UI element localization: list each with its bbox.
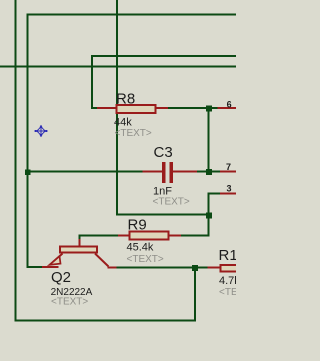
wire C3 right to junction xyxy=(197,171,206,173)
svg-text:3: 3 xyxy=(227,184,232,194)
capacitor C3 xyxy=(143,144,199,208)
origin marker (blue crosshair) xyxy=(35,125,48,137)
Q2 emitter arrow xyxy=(50,256,61,265)
wire collector row green xyxy=(117,267,196,269)
svg-text:7: 7 xyxy=(226,162,231,172)
Q2 base lead xyxy=(79,239,81,246)
wire V4 long vertical behind R8 xyxy=(116,0,118,215)
wire emitter green xyxy=(27,266,42,268)
svg-text:<TEXT>: <TEXT> xyxy=(219,287,236,298)
wire pin3 corner horizontal xyxy=(208,193,221,195)
wire H2 upper-right horizontal xyxy=(91,55,236,57)
resistor R1 xyxy=(208,247,257,298)
svg-text:6: 6 xyxy=(227,100,232,110)
Q2 emitter stub xyxy=(41,266,59,268)
wire R8 row left green xyxy=(91,107,98,109)
wire V7 junction down xyxy=(194,267,196,321)
wire V2 bottom corner is part of V2 xyxy=(27,266,29,268)
svg-text:<TEXT>: <TEXT> xyxy=(153,197,190,208)
Q2 collector diagonal xyxy=(95,254,109,267)
svg-text:C3: C3 xyxy=(154,144,173,161)
svg-text:Q2: Q2 xyxy=(51,269,71,286)
wire R8 row right green xyxy=(168,107,206,109)
svg-text:<TEXT>: <TEXT> xyxy=(127,254,164,265)
resistor R9 xyxy=(117,217,181,266)
svg-text:R1: R1 xyxy=(219,247,237,264)
Q2 base bar xyxy=(60,247,97,253)
svg-text:45.4k: 45.4k xyxy=(127,242,154,254)
wire V2 second vertical xyxy=(27,14,29,269)
node J3 on V2 for C3 row xyxy=(25,170,31,176)
svg-text:4.7k: 4.7k xyxy=(219,275,236,287)
Q2 emitter diagonal xyxy=(53,254,63,263)
node J4 mid junction xyxy=(206,213,212,219)
node J5 collector/R1 junction xyxy=(192,265,198,271)
wire H1 top horizontal xyxy=(27,14,237,16)
wire V5 junction down to C3 row xyxy=(208,111,210,171)
resistor R8 xyxy=(97,91,169,140)
svg-text:<TEXT>: <TEXT> xyxy=(115,128,152,139)
svg-text:R8: R8 xyxy=(116,91,135,108)
Q2 collector stub xyxy=(108,267,118,269)
wire base vertical green xyxy=(79,235,81,240)
pin 7 lead xyxy=(220,171,236,173)
wire C3 row left green xyxy=(28,171,143,173)
wire junction to pin6 xyxy=(212,107,218,109)
svg-text:44k: 44k xyxy=(114,117,132,129)
wire junction to R1 xyxy=(198,267,208,269)
wire R9 row right green xyxy=(180,235,210,237)
wire V1 left vertical xyxy=(15,0,17,322)
wire V6 pin3 down through junction xyxy=(208,193,210,237)
wire R9 row left green to base xyxy=(79,235,119,237)
node J1 R8 output junction xyxy=(206,106,212,112)
pin 3 lead xyxy=(220,193,236,195)
node J2 C3 right junction xyxy=(206,169,212,175)
wire junction to pin7 xyxy=(212,171,220,173)
svg-text:R9: R9 xyxy=(128,217,147,234)
svg-text:<TEXT>: <TEXT> xyxy=(51,297,88,308)
pin 6 lead xyxy=(218,107,237,109)
wire bottom horizontal xyxy=(15,320,197,322)
wire H3 full-width horizontal xyxy=(0,66,236,68)
wire H4 mid horizontal to junction xyxy=(116,214,209,216)
wire V3 down to R8 left xyxy=(91,55,93,109)
transistor Q2 xyxy=(41,239,117,308)
